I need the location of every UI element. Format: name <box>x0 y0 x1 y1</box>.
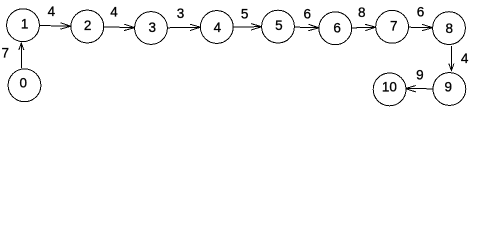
svg-text:3: 3 <box>148 20 156 35</box>
svg-text:9: 9 <box>416 67 424 82</box>
svg-text:7: 7 <box>2 45 10 60</box>
svg-text:1: 1 <box>21 17 29 32</box>
svg-text:4: 4 <box>110 5 118 20</box>
svg-text:0: 0 <box>20 75 28 90</box>
svg-text:7: 7 <box>390 19 398 34</box>
svg-text:4: 4 <box>461 51 469 66</box>
svg-text:5: 5 <box>241 7 249 22</box>
svg-text:4: 4 <box>48 4 56 19</box>
svg-text:9: 9 <box>444 79 452 94</box>
svg-text:2: 2 <box>84 18 92 33</box>
svg-text:8: 8 <box>358 5 366 20</box>
svg-text:6: 6 <box>417 5 425 20</box>
svg-text:6: 6 <box>303 7 311 22</box>
svg-text:8: 8 <box>445 21 453 36</box>
svg-text:5: 5 <box>275 18 283 33</box>
svg-text:4: 4 <box>214 20 222 35</box>
svg-text:3: 3 <box>177 6 185 21</box>
svg-text:10: 10 <box>382 79 397 94</box>
svg-text:6: 6 <box>333 21 341 36</box>
